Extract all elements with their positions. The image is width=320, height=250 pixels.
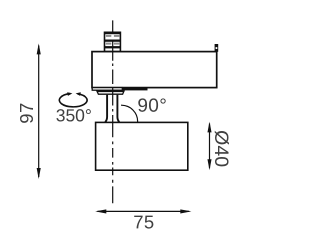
svg-text:Ø40: Ø40 bbox=[210, 130, 232, 167]
center axis dash-dot line bbox=[112, 20, 114, 203]
350 degree rotation symbol (ellipse with arrows) bbox=[59, 92, 87, 107]
svg-text:97: 97 bbox=[16, 102, 37, 123]
svg-text:90°: 90° bbox=[137, 96, 167, 117]
90 degree tilt arc bbox=[121, 105, 138, 122]
svg-text:75: 75 bbox=[133, 211, 154, 232]
90 degree label bbox=[137, 96, 167, 117]
track adapter (ribbed stem at top) bbox=[104, 32, 121, 52]
dimension 75 (bottom horizontal) bbox=[95, 209, 191, 232]
flange plate under body bbox=[97, 91, 124, 94]
small tab on body top-right bbox=[215, 44, 219, 52]
svg-text:350°: 350° bbox=[56, 105, 92, 125]
lamp head cylinder bbox=[96, 122, 188, 170]
body (horizontal housing box) bbox=[92, 52, 217, 91]
dimension 97 (left vertical) bbox=[16, 43, 41, 179]
350 degree label bbox=[56, 105, 92, 125]
dimension diameter 40 (right vertical) bbox=[207, 122, 232, 171]
swivel neck bbox=[105, 95, 119, 122]
